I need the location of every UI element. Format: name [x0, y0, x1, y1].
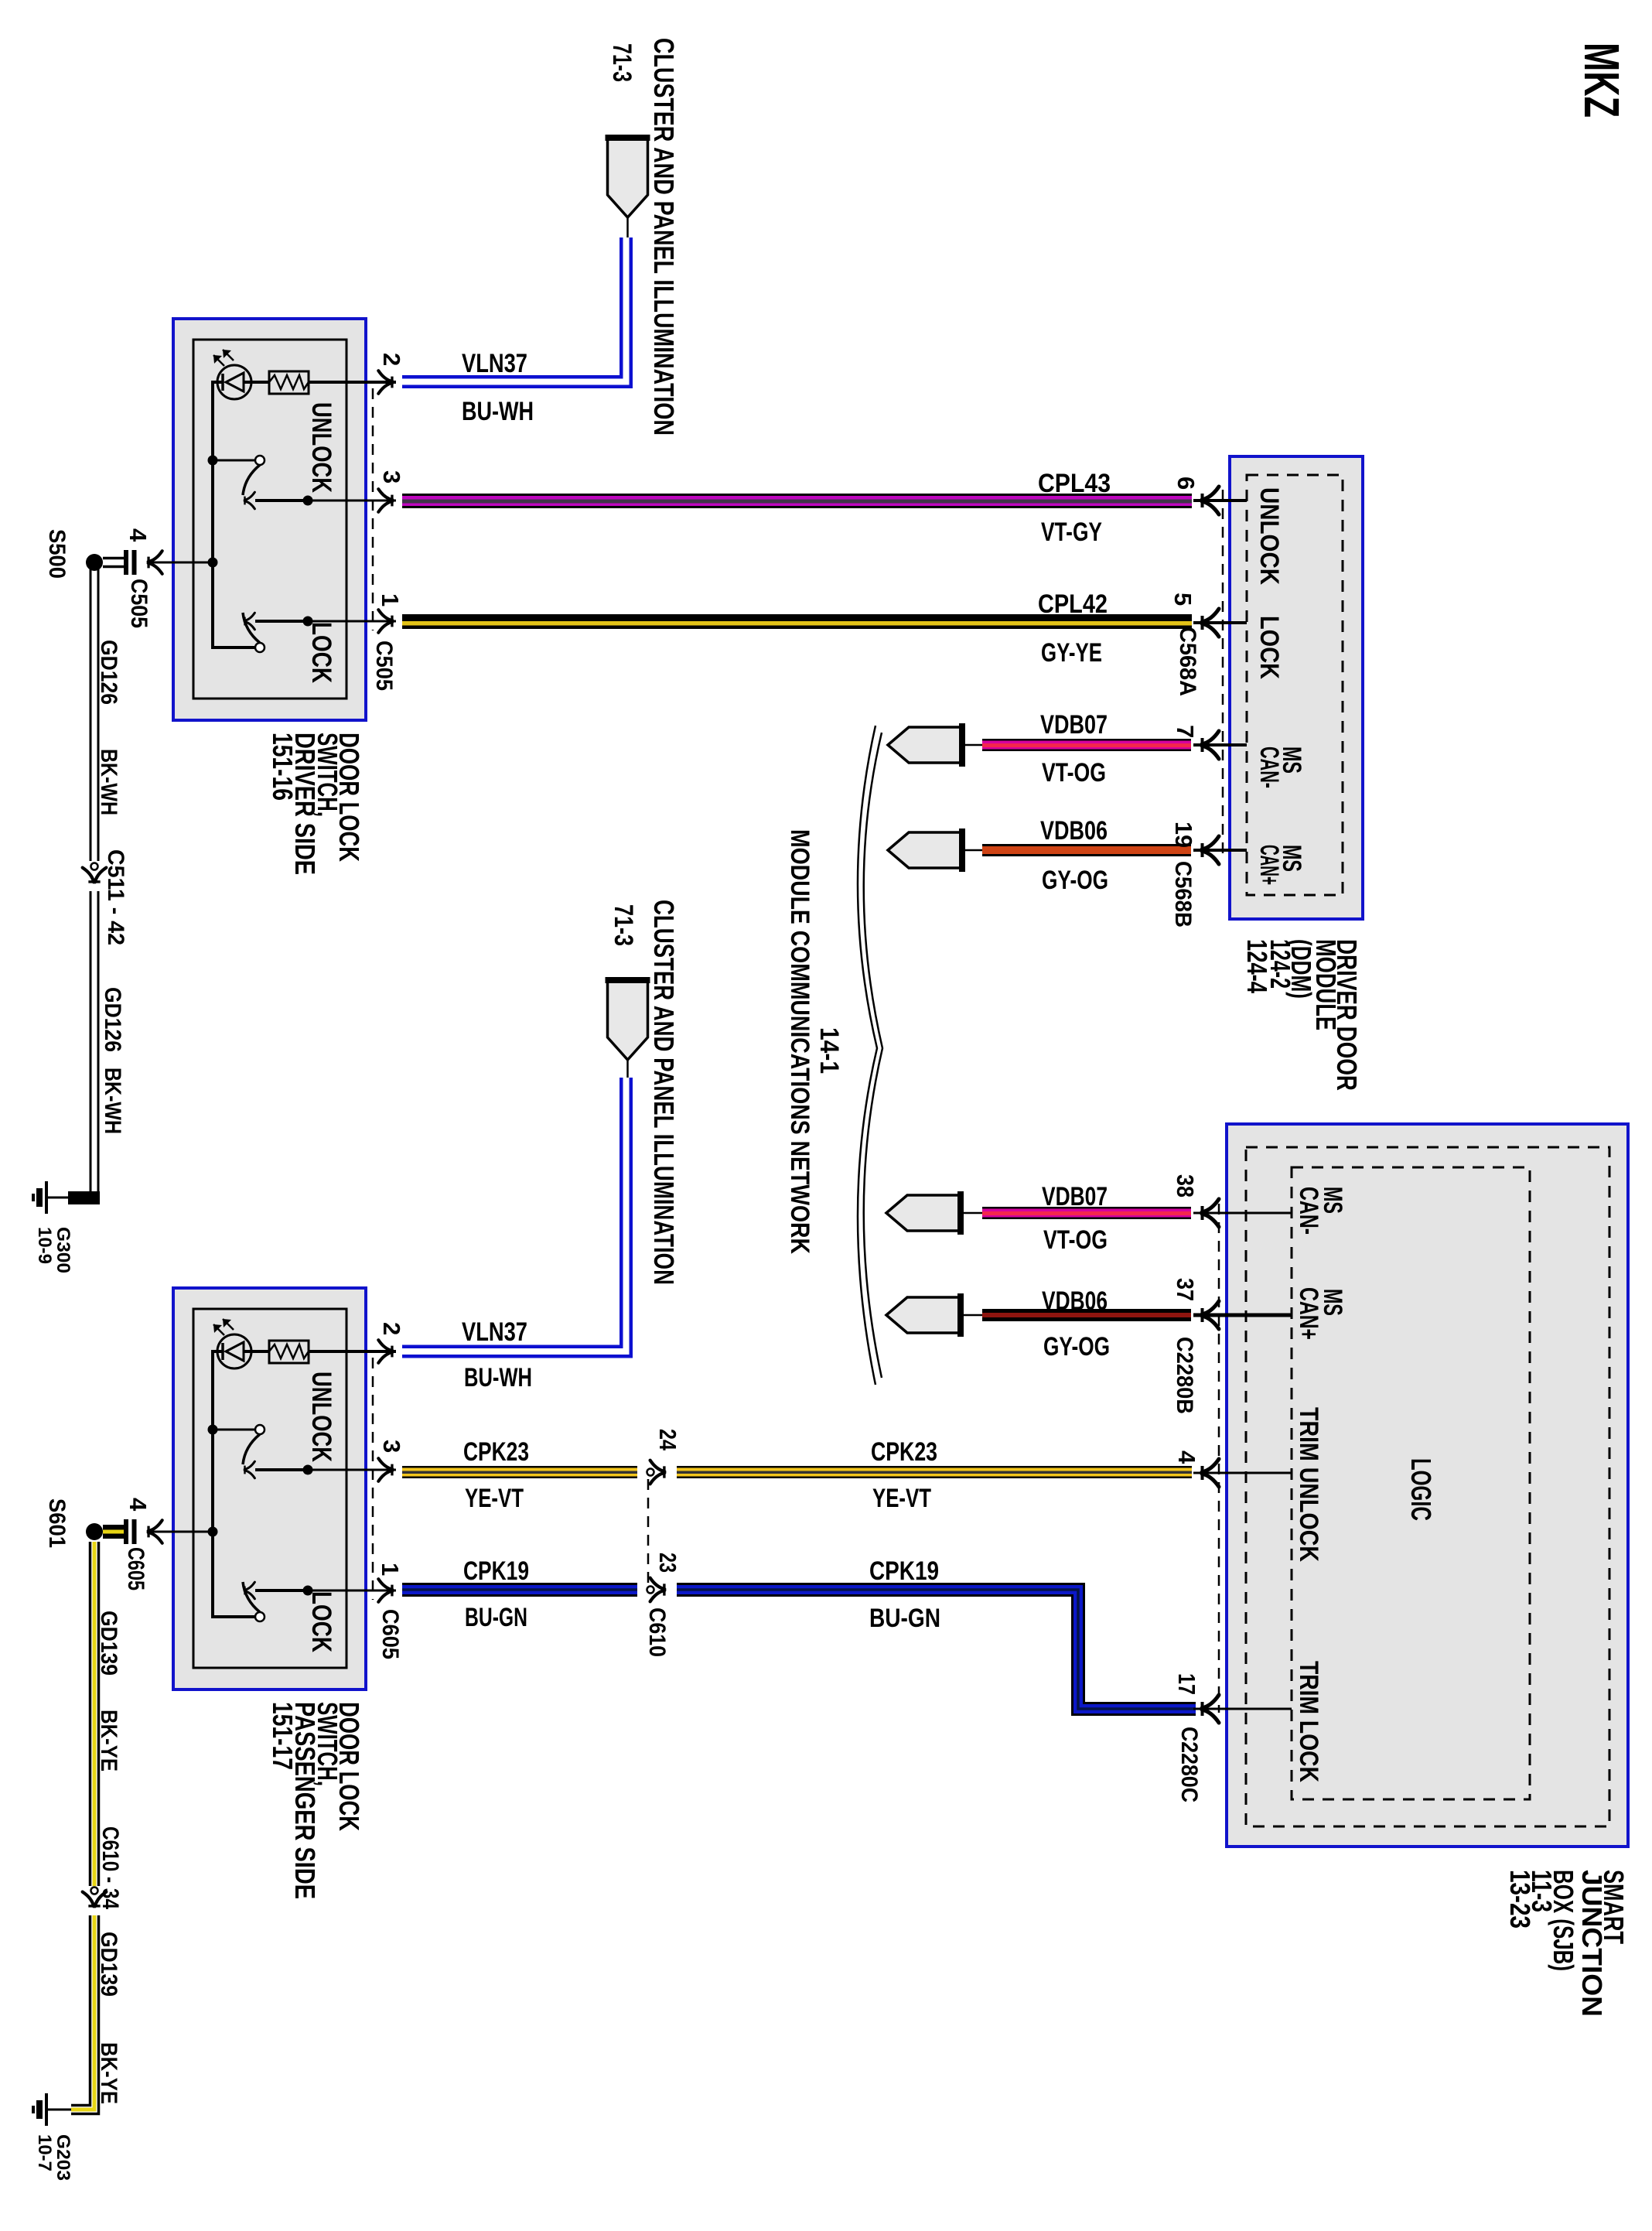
svg-text:VT-OG: VT-OG [1043, 1225, 1108, 1255]
svg-text:151-16: 151-16 [267, 733, 299, 801]
svg-text:4: 4 [125, 528, 152, 542]
svg-text:GY-YE: GY-YE [1041, 638, 1102, 668]
svg-text:6: 6 [1172, 477, 1200, 490]
svg-text:BU-WH: BU-WH [462, 397, 534, 426]
svg-text:C568A: C568A [1175, 627, 1200, 696]
svg-text:C610: C610 [644, 1607, 670, 1657]
svg-text:CAN-: CAN- [1294, 1187, 1323, 1235]
svg-text:38: 38 [1172, 1174, 1199, 1197]
svg-text:CLUSTER AND PANEL ILLUMINATION: CLUSTER AND PANEL ILLUMINATION [648, 38, 680, 436]
svg-text:UNLOCK: UNLOCK [306, 1372, 336, 1462]
svg-text:S601: S601 [44, 1498, 70, 1548]
svg-text:YE-VT: YE-VT [465, 1484, 524, 1513]
svg-text:LOCK: LOCK [1254, 616, 1284, 679]
svg-text:C505: C505 [126, 579, 152, 628]
svg-text:G300: G300 [53, 1227, 73, 1273]
svg-text:CAN+: CAN+ [1254, 845, 1284, 885]
svg-text:LOCK: LOCK [306, 1591, 336, 1652]
svg-text:CLUSTER AND PANEL ILLUMINATION: CLUSTER AND PANEL ILLUMINATION [648, 900, 680, 1285]
svg-text:BK-YE: BK-YE [96, 2042, 121, 2104]
svg-text:VDB07: VDB07 [1040, 710, 1108, 740]
svg-text:VT-GY: VT-GY [1041, 518, 1102, 547]
svg-text:BK-WH: BK-WH [96, 749, 121, 815]
svg-text:CAN+: CAN+ [1294, 1287, 1323, 1340]
svg-text:GY-OG: GY-OG [1043, 1332, 1110, 1361]
svg-text:CPL42: CPL42 [1038, 589, 1108, 619]
svg-text:JUNCTION: JUNCTION [1576, 1870, 1608, 2017]
svg-text:GY-OG: GY-OG [1042, 866, 1108, 895]
svg-text:CPK23: CPK23 [871, 1437, 937, 1467]
svg-text:3: 3 [378, 470, 405, 483]
svg-text:37: 37 [1172, 1278, 1199, 1301]
svg-text:1: 1 [377, 1563, 404, 1576]
svg-text:MKZ: MKZ [1574, 43, 1630, 118]
svg-text:UNLOCK: UNLOCK [306, 402, 336, 493]
svg-text:3: 3 [378, 1440, 405, 1453]
svg-text:4: 4 [125, 1498, 152, 1512]
svg-text:TRIM UNLOCK: TRIM UNLOCK [1294, 1407, 1323, 1562]
svg-text:VDB06: VDB06 [1040, 816, 1108, 846]
svg-text:C605: C605 [123, 1547, 148, 1590]
svg-text:VLN37: VLN37 [462, 349, 527, 378]
svg-text:S500: S500 [44, 529, 70, 579]
svg-text:BU-WH: BU-WH [464, 1363, 532, 1392]
svg-text:7: 7 [1172, 725, 1199, 738]
svg-text:CPK19: CPK19 [869, 1556, 939, 1586]
svg-text:BU-GN: BU-GN [465, 1603, 527, 1632]
svg-text:19: 19 [1170, 822, 1197, 848]
svg-text:G203: G203 [53, 2134, 73, 2181]
svg-text:4: 4 [1173, 1450, 1200, 1464]
svg-text:10-9: 10-9 [34, 1227, 55, 1264]
svg-text:C568B: C568B [1170, 861, 1196, 928]
svg-text:71-3: 71-3 [609, 904, 638, 946]
svg-text:2: 2 [378, 353, 405, 366]
svg-text:13-23: 13-23 [1504, 1870, 1536, 1929]
svg-text:MODULE COMMUNICATIONS NETWORK: MODULE COMMUNICATIONS NETWORK [785, 829, 814, 1254]
svg-text:10-7: 10-7 [34, 2134, 55, 2171]
svg-text:GD139: GD139 [96, 1611, 121, 1676]
svg-text:C511 - 42: C511 - 42 [103, 849, 128, 945]
svg-text:BK-WH: BK-WH [100, 1068, 125, 1134]
svg-text:GD126: GD126 [100, 987, 125, 1052]
svg-text:VDB06: VDB06 [1042, 1286, 1108, 1316]
svg-text:17: 17 [1173, 1673, 1200, 1695]
svg-text:BU-GN: BU-GN [869, 1604, 940, 1633]
svg-text:71-3: 71-3 [607, 43, 637, 82]
svg-text:C610 - 34: C610 - 34 [97, 1826, 123, 1909]
svg-text:CPL43: CPL43 [1038, 469, 1111, 498]
svg-text:CAN-: CAN- [1254, 747, 1284, 788]
svg-text:C2280B: C2280B [1172, 1337, 1197, 1414]
svg-text:23: 23 [654, 1553, 681, 1573]
svg-text:24: 24 [654, 1429, 681, 1451]
svg-text:CPK19: CPK19 [463, 1556, 529, 1586]
svg-text:VT-OG: VT-OG [1042, 758, 1106, 788]
svg-text:CPK23: CPK23 [463, 1437, 529, 1467]
svg-text:124-4: 124-4 [1241, 939, 1273, 993]
svg-text:TRIM LOCK: TRIM LOCK [1294, 1661, 1323, 1782]
svg-text:151-17: 151-17 [267, 1702, 299, 1770]
svg-text:LOCK: LOCK [306, 622, 336, 683]
svg-text:VLN37: VLN37 [462, 1317, 527, 1347]
svg-text:GD126: GD126 [96, 640, 121, 705]
svg-text:GD139: GD139 [96, 1932, 121, 1997]
svg-text:C2280C: C2280C [1176, 1727, 1202, 1802]
svg-text:14-1: 14-1 [814, 1027, 844, 1074]
svg-text:LOGIC: LOGIC [1405, 1458, 1437, 1521]
svg-text:VDB07: VDB07 [1042, 1182, 1108, 1211]
svg-text:2: 2 [378, 1322, 405, 1335]
svg-text:1: 1 [377, 593, 404, 606]
svg-text:C605: C605 [377, 1609, 403, 1659]
svg-text:C505: C505 [371, 641, 397, 691]
svg-text:YE-VT: YE-VT [872, 1484, 931, 1513]
svg-text:5: 5 [1169, 593, 1196, 606]
svg-text:UNLOCK: UNLOCK [1254, 487, 1284, 585]
svg-text:BK-YE: BK-YE [96, 1710, 121, 1771]
